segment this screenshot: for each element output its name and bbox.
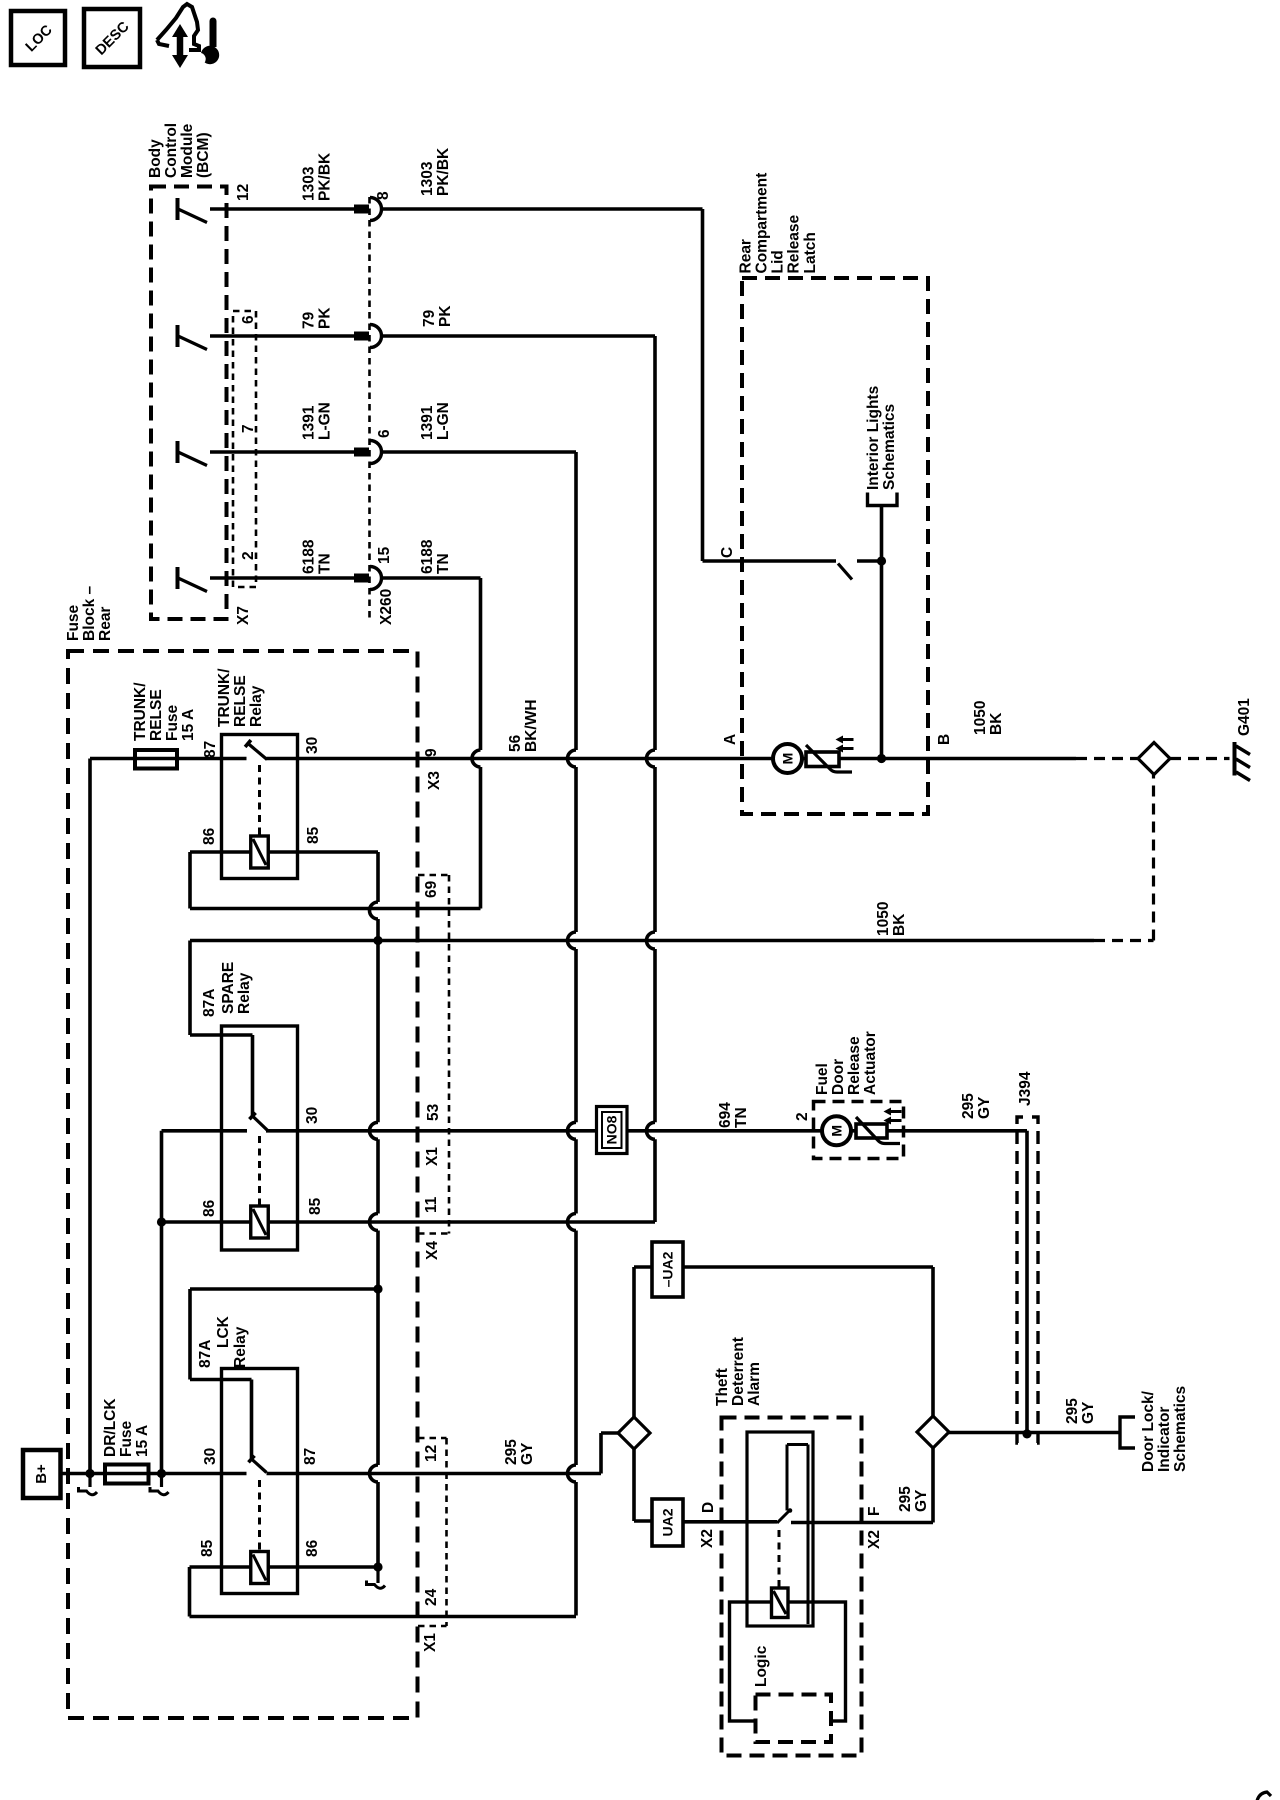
ground hook at LCK relay 86	[376, 1567, 379, 1583]
svg-text:87: 87	[302, 1448, 319, 1465]
wire to UA2 connector	[632, 1449, 636, 1521]
svg-text:TRUNK/: TRUNK/	[132, 682, 149, 741]
theft alarm internal relay box	[747, 1432, 813, 1626]
svg-text:Compartment: Compartment	[754, 173, 771, 274]
theft alarm internal switch	[774, 1520, 777, 1524]
svg-text:295: 295	[1064, 1398, 1081, 1424]
relay K2 coil control dashed line	[258, 1136, 261, 1206]
svg-text:X2: X2	[699, 1529, 716, 1548]
svg-text:M: M	[829, 1125, 845, 1137]
wire right splice to theft alarm pin F	[931, 1447, 935, 1523]
fuel door actuator latch mechanism	[856, 1124, 887, 1138]
svg-text:RELSE: RELSE	[232, 675, 249, 727]
wire spare relay 87A feed	[188, 941, 192, 1036]
svg-text:GY: GY	[519, 1442, 536, 1465]
rear compartment lid release latch dashed box	[742, 278, 928, 814]
svg-text:11: 11	[423, 1196, 440, 1213]
svg-text:BK: BK	[988, 712, 1005, 735]
svg-text:86: 86	[304, 1539, 321, 1557]
latch release mechanism	[806, 752, 839, 767]
svg-text:D: D	[700, 1502, 717, 1513]
svg-text:12: 12	[423, 1445, 440, 1462]
svg-text:Body: Body	[147, 139, 164, 178]
fuse clip hooks at DR/LCK fuse	[88, 1474, 91, 1488]
svg-text:Actuator: Actuator	[862, 1031, 879, 1095]
ground G401	[1233, 742, 1237, 776]
svg-text:Block –: Block –	[81, 585, 98, 641]
wire trunk relay 85 ground drop	[376, 852, 380, 902]
svg-text:1303: 1303	[301, 166, 318, 201]
wire 1303 PK/BK vertical drop to latch pin C	[701, 209, 705, 561]
theft alarm coil control dashed line	[778, 1530, 781, 1588]
svg-text:C: C	[719, 547, 736, 558]
svg-text:6: 6	[240, 315, 257, 324]
svg-text:L-GN: L-GN	[317, 402, 334, 440]
wire 6188 TN vertical drop to trunk relay coil	[479, 578, 483, 750]
svg-text:85: 85	[305, 826, 322, 844]
wire trunk relay 86 to 6188 TN	[188, 852, 192, 909]
wire 1391 L-GN from BCM pin 7 to X260 pin 6	[210, 450, 354, 454]
wire 6188 TN from BCM pin 2 to X260 pin 15	[210, 576, 354, 580]
svg-text:X260: X260	[378, 589, 395, 625]
svg-text:295: 295	[960, 1093, 977, 1119]
svg-text:6: 6	[376, 429, 393, 438]
battery B+ terminal	[23, 1450, 61, 1498]
svg-text:30: 30	[304, 1107, 321, 1124]
BCM internal switch row 1 (pin 12)	[176, 198, 180, 220]
svg-text:Indicator: Indicator	[1156, 1407, 1173, 1472]
wire 79 PK vertical drop to spare relay coil	[653, 336, 657, 750]
module U1 Body Control Module dashed box	[151, 187, 227, 620]
svg-text:Fuse: Fuse	[164, 704, 181, 741]
wire spare relay 30/86 tie riser	[160, 1131, 164, 1222]
svg-text:X7: X7	[235, 606, 252, 625]
connector -UA2 box	[652, 1242, 683, 1297]
svg-text:86: 86	[201, 827, 218, 845]
svg-text:X3: X3	[426, 771, 443, 790]
svg-text:TN: TN	[317, 553, 334, 574]
relay K2 coil	[162, 1220, 656, 1224]
wire 1050 BK ground bus	[190, 939, 1094, 943]
svg-text:85: 85	[307, 1197, 324, 1215]
wire -UA2 to right splice	[683, 1265, 933, 1269]
relay K1 switch blade 87-30	[248, 744, 267, 760]
svg-text:Rear: Rear	[97, 607, 114, 641]
BCM internal switch row 2 (pin 6)	[176, 325, 180, 347]
splice diamond on ground wire	[1138, 743, 1170, 775]
BCM internal switch row 3 (pin 7)	[176, 441, 180, 463]
svg-text:BK/WH: BK/WH	[523, 699, 540, 752]
svg-text:Alarm: Alarm	[746, 1362, 763, 1406]
svg-text:69: 69	[423, 880, 440, 898]
connector X260 dashed line	[368, 197, 371, 619]
svg-text:15: 15	[376, 546, 393, 564]
svg-text:Logic: Logic	[753, 1645, 770, 1687]
svg-text:2: 2	[794, 1112, 811, 1121]
svg-text:J394: J394	[1017, 1071, 1034, 1106]
fuse block rear dashed box with connector X1 right edge	[68, 651, 418, 1718]
svg-text:79: 79	[421, 309, 438, 327]
svg-text:PK: PK	[437, 305, 454, 327]
svg-text:Rear: Rear	[738, 239, 755, 273]
splice NO8 box	[597, 1107, 628, 1154]
svg-text:GY: GY	[913, 1489, 930, 1512]
svg-text:Release: Release	[786, 215, 803, 274]
svg-text:Lid: Lid	[770, 250, 787, 273]
svg-text:UA2: UA2	[660, 1508, 676, 1536]
svg-text:LCK: LCK	[215, 1315, 232, 1348]
svg-text:30: 30	[304, 737, 321, 754]
relay K2 switch blade 87A-30	[251, 1035, 255, 1116]
logic inner dashed box	[756, 1695, 832, 1743]
svg-text:1050: 1050	[972, 701, 989, 735]
svg-text:PK/BK: PK/BK	[317, 152, 334, 201]
relay K1 coil control dashed line	[258, 765, 261, 835]
splice diamond right on 295 GY	[917, 1416, 949, 1448]
relay K1 coil	[190, 850, 378, 854]
svg-text:1050: 1050	[875, 902, 892, 936]
relay K3 switch blade 87A-87	[252, 1459, 267, 1473]
svg-text:694: 694	[717, 1102, 734, 1128]
wire 1303 PK/BK from BCM pin 12 to X260 pin 8	[210, 207, 354, 211]
wire theft alarm pin F internal	[791, 1521, 862, 1525]
main bus wire 56 BK/WH from trunk fuse to latch pin A	[90, 757, 247, 761]
svg-text:X4: X4	[424, 1241, 441, 1260]
svg-text:15 A: 15 A	[134, 1425, 151, 1457]
wire 79 PK from BCM pin 6 to X260	[210, 334, 354, 338]
svg-text:X1: X1	[422, 1633, 439, 1652]
svg-text:24: 24	[423, 1588, 440, 1606]
relay K3 coil control dashed line	[258, 1480, 261, 1550]
svg-text:Schematics: Schematics	[881, 404, 898, 490]
theft deterrent alarm dashed box connector X2	[722, 1418, 862, 1756]
svg-text:15 A: 15 A	[180, 709, 197, 741]
svg-text:Relay: Relay	[248, 685, 265, 727]
svg-text:B: B	[936, 734, 953, 745]
svg-text:1303: 1303	[419, 161, 436, 196]
icon up-down arrow	[177, 34, 184, 60]
svg-text:Fuel: Fuel	[814, 1063, 831, 1095]
svg-text:Schematics: Schematics	[1172, 1386, 1189, 1472]
svg-text:87A: 87A	[201, 989, 218, 1017]
svg-text:RELSE: RELSE	[148, 689, 165, 741]
svg-text:TN: TN	[733, 1107, 750, 1128]
svg-text:Theft: Theft	[714, 1368, 731, 1406]
connector J394 pass-through dashed lines	[1017, 1117, 1023, 1443]
svg-text:12: 12	[235, 184, 252, 201]
svg-text:X2: X2	[866, 1530, 883, 1549]
svg-text:GY: GY	[1080, 1401, 1097, 1424]
wire LCK coil 85 to 1391 L-GN pin 24	[188, 1567, 192, 1617]
wire -UA2 branch	[632, 1267, 636, 1417]
svg-text:F: F	[866, 1507, 883, 1516]
wire 694 TN from NO8 to fuel door actuator	[627, 1129, 1027, 1133]
svg-text:8: 8	[375, 191, 392, 200]
svg-text:Interior Lights: Interior Lights	[865, 386, 882, 490]
svg-text:(BCM): (BCM)	[195, 132, 212, 178]
svg-text:NO8: NO8	[604, 1115, 620, 1144]
svg-text:Fuse: Fuse	[65, 604, 82, 641]
svg-text:Door Lock/: Door Lock/	[1140, 1390, 1157, 1472]
svg-text:A: A	[722, 734, 739, 745]
svg-text:6188: 6188	[419, 539, 436, 574]
fuel door actuator motor M	[822, 1116, 851, 1145]
svg-text:PK: PK	[317, 307, 334, 329]
connector UA2 box	[652, 1499, 683, 1546]
DESC reference box	[84, 9, 140, 67]
svg-text:Fuse: Fuse	[118, 1420, 135, 1457]
svg-text:X1: X1	[424, 1147, 441, 1166]
svg-text:L-GN: L-GN	[435, 402, 452, 440]
svg-text:Release: Release	[846, 1036, 863, 1095]
svg-text:1391: 1391	[301, 405, 318, 440]
latch ajar switch to interior lights	[880, 507, 884, 759]
svg-text:B+: B+	[33, 1464, 50, 1484]
BCM internal switch row 4 (pin 2)	[176, 567, 180, 589]
svg-text:56: 56	[507, 734, 524, 752]
icon wrench	[210, 21, 217, 47]
svg-text:295: 295	[897, 1486, 914, 1512]
wire spare relay 30 to X1 pin 53 and NO8	[162, 1129, 248, 1133]
wire LCK relay 87A feed	[190, 1287, 378, 1291]
svg-text:G401: G401	[1236, 698, 1253, 736]
connector X4 dashed box	[448, 875, 451, 1234]
off-page reference Door Lock/Indicator Schematics	[1120, 1417, 1135, 1448]
svg-text:Relay: Relay	[236, 972, 253, 1014]
svg-text:DR/LCK: DR/LCK	[102, 1398, 119, 1457]
wire 1391 L-GN vertical drop to theft alarm	[574, 452, 578, 750]
wire latch pin C internal switch	[703, 559, 837, 563]
svg-text:Deterrent: Deterrent	[730, 1337, 747, 1406]
svg-text:Control: Control	[163, 123, 180, 178]
wire battery feed to DR/LCK fuse and LCK relay 30	[61, 1472, 247, 1476]
svg-text:–UA2: –UA2	[660, 1251, 676, 1287]
svg-text:PK/BK: PK/BK	[435, 147, 452, 196]
connector X1 lower dashed box pin 12/24	[445, 1438, 448, 1626]
svg-text:TRUNK/: TRUNK/	[216, 668, 233, 727]
svg-text:Module: Module	[179, 123, 196, 178]
splice diamond left on 295 GY	[618, 1417, 650, 1449]
theft alarm coil	[772, 1588, 789, 1618]
svg-text:53: 53	[425, 1103, 442, 1121]
relay K3 coil	[190, 1565, 379, 1569]
page corner artifact	[1257, 1792, 1271, 1800]
svg-text:TN: TN	[435, 553, 452, 574]
wire UA2 to theft deterrent alarm pin D	[683, 1520, 774, 1524]
wire B+ feed riser to trunk fuse	[88, 759, 92, 1474]
svg-text:GY: GY	[976, 1096, 993, 1119]
wire splice to ground G401 dash-dot	[1170, 757, 1230, 760]
svg-text:85: 85	[199, 1539, 216, 1557]
wire right splice to door lock indicator	[949, 1431, 1120, 1435]
wire 1050 BK dashed segment to splice	[1094, 939, 1154, 942]
svg-text:7: 7	[240, 424, 257, 433]
svg-text:Relay: Relay	[232, 1326, 249, 1368]
svg-text:9: 9	[423, 748, 440, 757]
svg-text:87A: 87A	[197, 1340, 214, 1368]
hotlink icon: vehicle outline with up-down arrow and wrench	[157, 4, 199, 50]
svg-text:SPARE: SPARE	[220, 962, 237, 1014]
svg-text:BK: BK	[891, 913, 908, 936]
fuel door release actuator dashed box	[814, 1102, 904, 1159]
connector X7 dashed box on BCM	[233, 311, 256, 587]
svg-text:Door: Door	[830, 1059, 847, 1095]
svg-text:6188: 6188	[301, 539, 318, 574]
svg-text:30: 30	[202, 1448, 219, 1465]
svg-text:Latch: Latch	[802, 232, 819, 273]
theft alarm logic box	[730, 1602, 846, 1721]
svg-text:87: 87	[202, 741, 219, 758]
svg-text:M: M	[780, 753, 796, 765]
svg-text:86: 86	[201, 1199, 218, 1217]
svg-text:79: 79	[301, 311, 318, 329]
svg-text:2: 2	[240, 551, 257, 560]
svg-text:1391: 1391	[419, 405, 436, 440]
LOC reference box	[11, 11, 65, 65]
svg-text:295: 295	[503, 1439, 520, 1465]
